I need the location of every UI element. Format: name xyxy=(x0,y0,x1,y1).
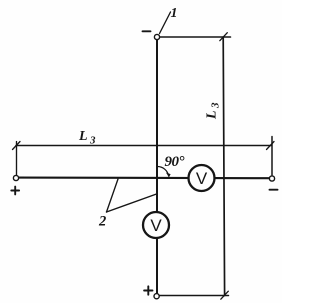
svg-text:3: 3 xyxy=(89,135,96,147)
svg-text:3: 3 xyxy=(210,102,222,109)
svg-text:L: L xyxy=(78,129,88,144)
svg-text:V: V xyxy=(150,216,162,235)
svg-text:L: L xyxy=(205,110,220,120)
svg-text:1: 1 xyxy=(171,6,178,21)
svg-text:V: V xyxy=(196,169,208,188)
svg-text:2: 2 xyxy=(98,214,106,230)
svg-text:90°: 90° xyxy=(165,154,185,170)
